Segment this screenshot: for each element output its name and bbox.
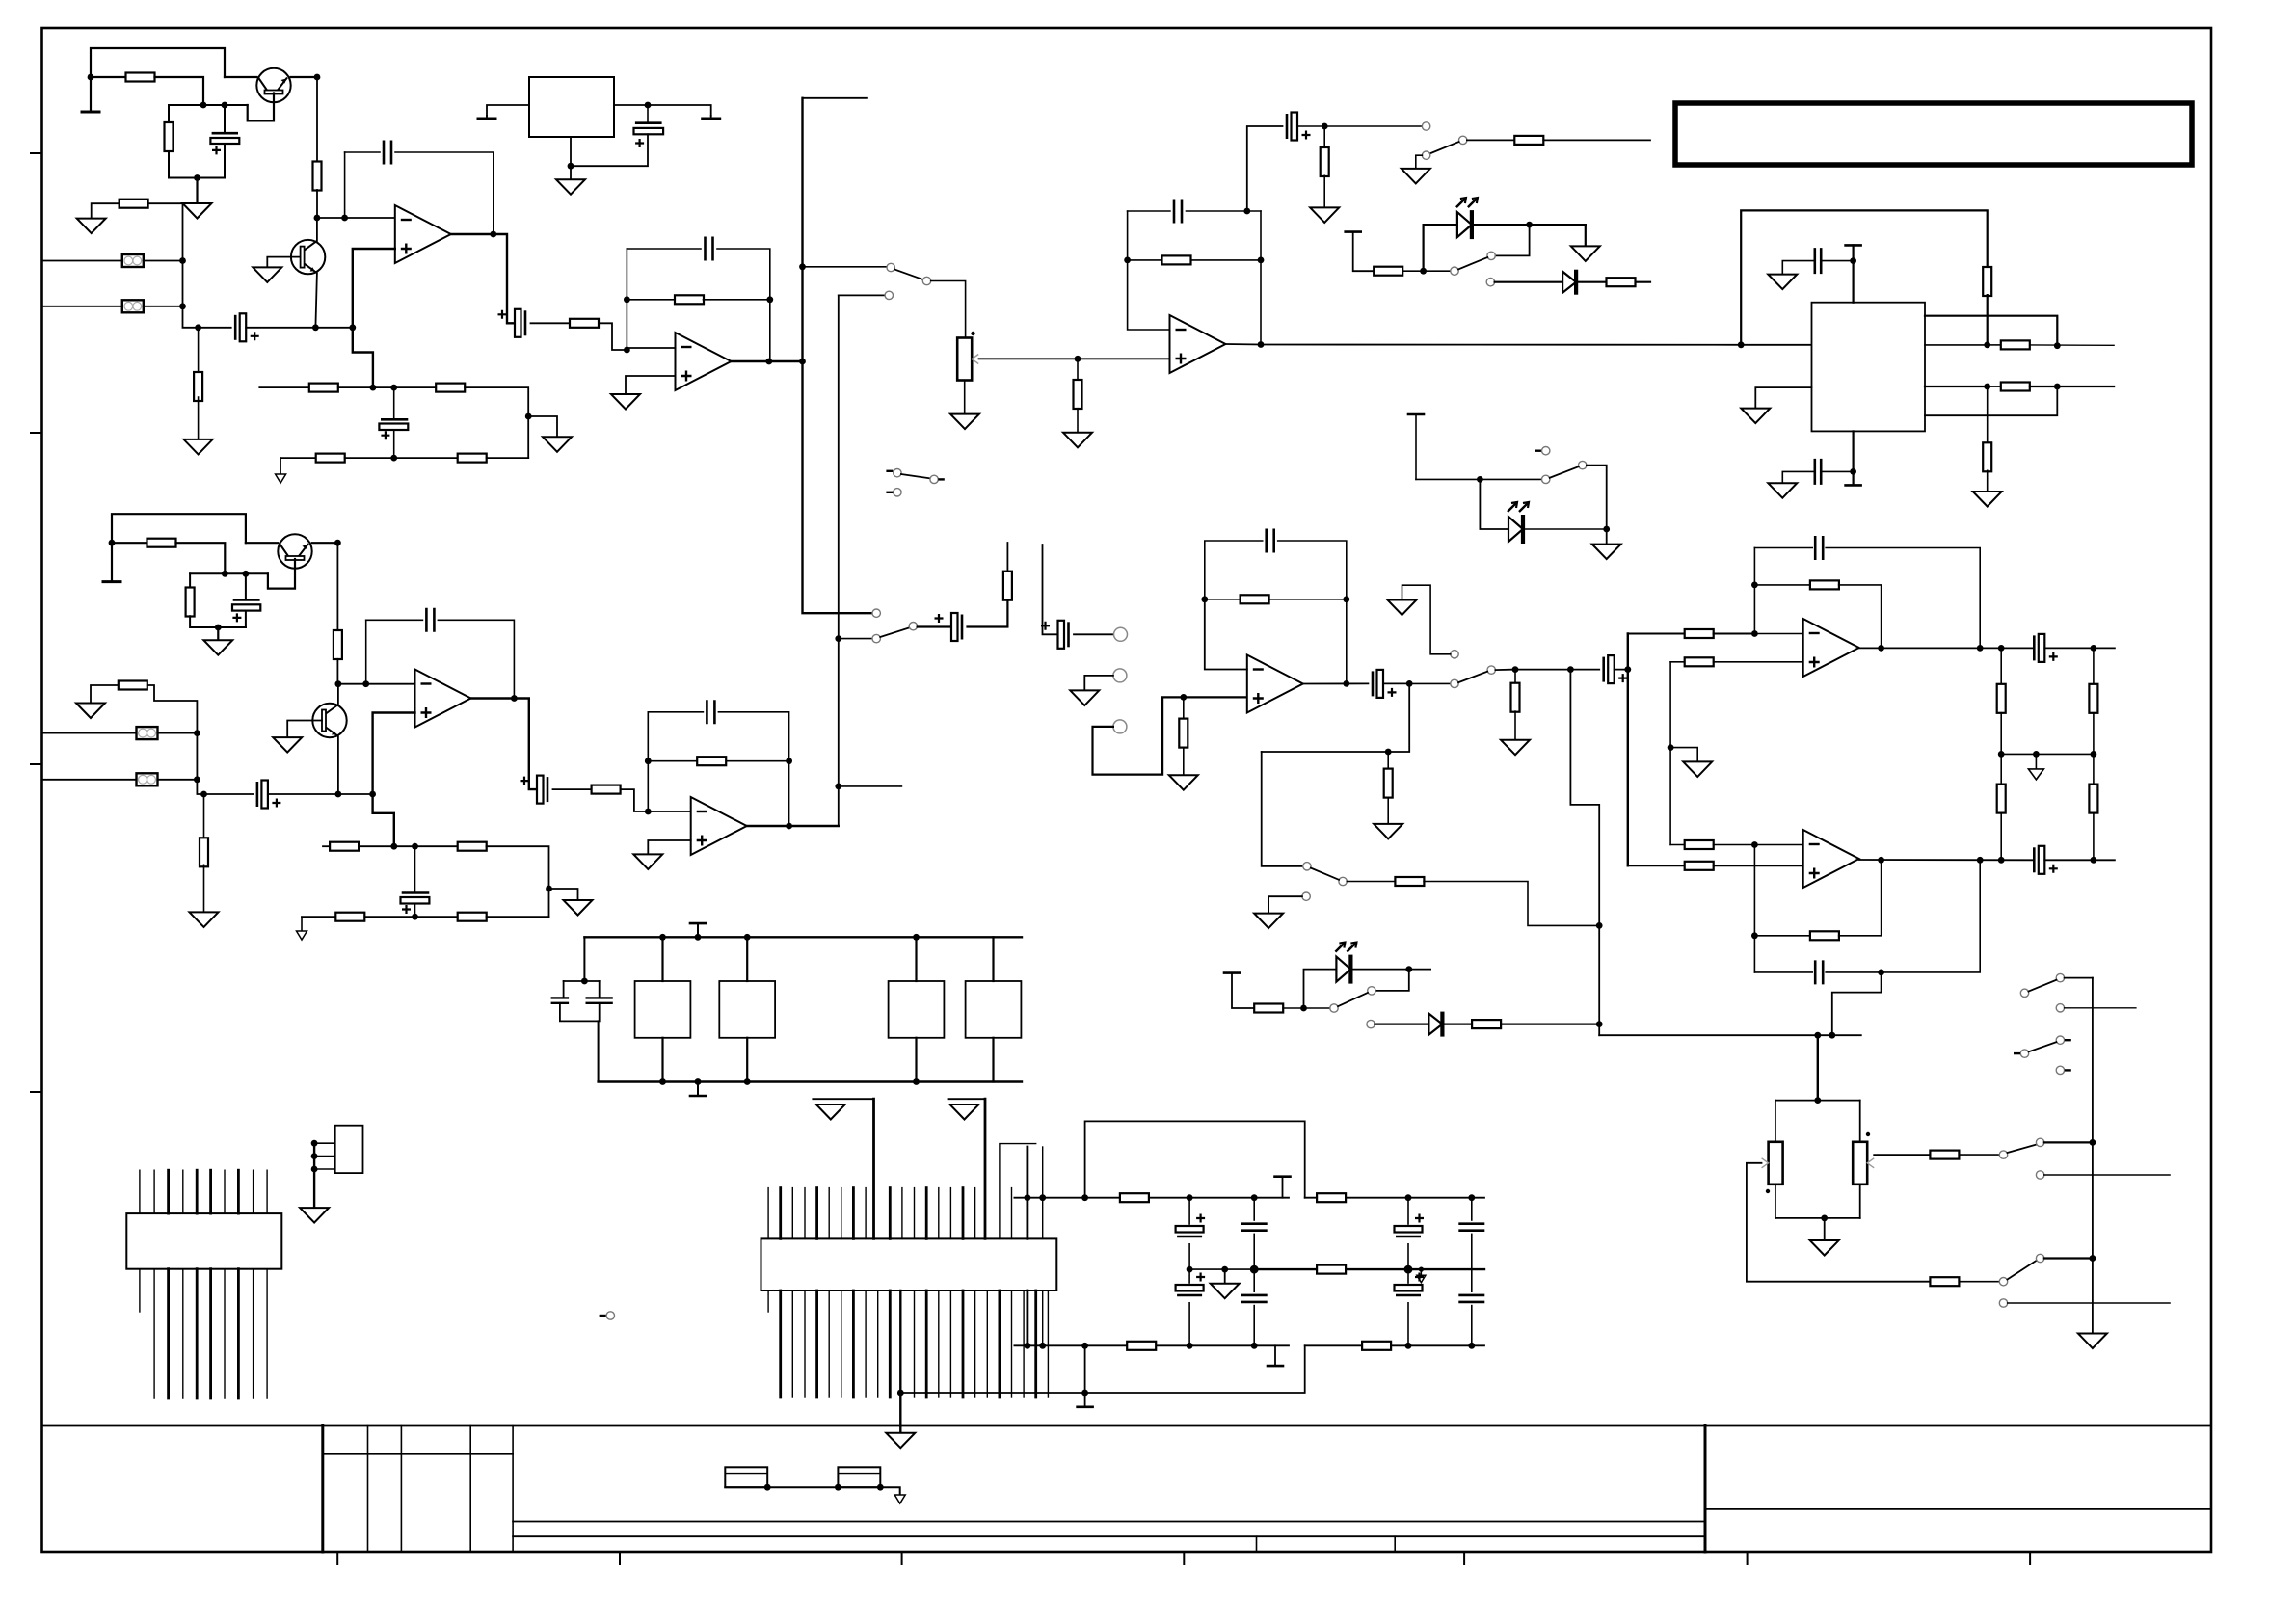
wire D1 to R21	[1577, 281, 1607, 283]
wire P1 gnd1 bar	[813, 1098, 873, 1100]
wire P2 pin bottom 9	[253, 1269, 254, 1398]
wire P1 pin bottom 6	[828, 1290, 830, 1397]
wire R46 right	[1839, 860, 1882, 936]
wire C10 to vee	[1821, 470, 1853, 472]
wire hp in row	[1515, 669, 1599, 671]
wire C12 row to plus rail	[338, 793, 373, 795]
wire U8 row3	[1925, 386, 1988, 387]
wire P1 pin top 6	[828, 1188, 830, 1239]
wire C26 bottom	[1188, 1244, 1190, 1269]
wire LED3 supply	[1232, 973, 1254, 1008]
wire R38 right	[1424, 882, 1599, 926]
wire U9 rail	[313, 1143, 315, 1208]
op-amp U7	[1803, 830, 1859, 888]
wire SW7 diode row	[1495, 281, 1563, 283]
wire P2 pin top 3	[167, 1170, 170, 1213]
power stub rail top	[1275, 1175, 1291, 1178]
wire U1 fb top right	[395, 152, 494, 234]
ground U2 plus	[611, 394, 640, 410]
wire load rail L2	[2000, 713, 2002, 755]
junction mid c	[1404, 1265, 1413, 1274]
wire XLR1 hot	[42, 260, 122, 262]
wire C1 bottom lead	[224, 144, 226, 178]
wire U8 gnd pin	[1852, 431, 1854, 485]
wire R31 to corner	[487, 916, 549, 918]
ground jack J1	[1070, 690, 1099, 705]
title block cell divider A	[1256, 1536, 1258, 1552]
wire jack tip lead	[1074, 633, 1114, 635]
junction K2 bottom	[744, 1078, 751, 1085]
wire U2 fb cap row	[627, 248, 701, 250]
ground SW4	[1254, 914, 1283, 929]
capacitor C5	[381, 418, 408, 421]
wire bridge T stem	[1084, 1393, 1086, 1407]
wire R21 right	[1636, 281, 1650, 283]
wire row878 left	[323, 845, 330, 847]
wire P1 pin bottom 16	[949, 1290, 951, 1397]
wire Q2 base	[267, 257, 300, 268]
wire U1 fb left rail	[344, 152, 346, 218]
wire LED2 gnd	[1606, 529, 1608, 545]
junction U6 out c	[1998, 645, 2005, 652]
diode D2	[1428, 1014, 1442, 1035]
junction bus1 sw1	[799, 263, 806, 270]
switch SW4 blade	[1311, 868, 1339, 880]
earth ground ch2 bias	[103, 580, 120, 583]
wire SW5 pole lead	[1304, 1007, 1330, 1009]
wire VR4 out stem	[710, 116, 712, 119]
wire crystal top row	[564, 980, 600, 982]
wire VR3 wiper	[1874, 1154, 1930, 1156]
wire node to C5	[373, 386, 394, 388]
junction pot rail top	[1814, 1097, 1821, 1104]
junction P1 gnd3	[897, 1390, 904, 1397]
wire mid gnd stem	[1224, 1269, 1226, 1284]
connector P2	[126, 1213, 281, 1269]
junction U6 out b	[1977, 645, 1984, 652]
switch SW9 throw b	[1451, 651, 1458, 658]
ground mid rail	[1211, 1284, 1240, 1299]
resistor R5	[194, 372, 202, 401]
junction U4 fb left	[1201, 596, 1208, 602]
wire R33 stub	[1006, 543, 1008, 572]
wire R4 to rail	[147, 203, 182, 260]
wire load rail L4	[2000, 812, 2002, 860]
ground C10	[1768, 483, 1797, 498]
wire XLR1 cold	[42, 306, 122, 307]
junction input cap node ch2	[200, 791, 207, 798]
capacitor C2	[234, 315, 237, 340]
EMI filter FB4	[137, 773, 158, 785]
resistor R2	[165, 122, 174, 151]
wire Q1 out rail	[316, 77, 318, 162]
wire mid bias rail	[1669, 662, 1671, 845]
wire row878 right	[415, 845, 458, 847]
resistor R37	[1511, 683, 1520, 712]
wire R9 to C5	[345, 457, 394, 459]
junction xlr3	[194, 730, 200, 736]
junction mid b	[1250, 1265, 1259, 1274]
title block divider V4	[469, 1426, 471, 1553]
wire P1 pin top 2	[779, 1188, 782, 1239]
wire U7 fb rail	[1753, 845, 1755, 972]
wire K1 top lead	[661, 937, 663, 981]
wire U4 fb cap left rail	[1205, 541, 1263, 599]
wire P1 pin bottom 23	[1034, 1290, 1037, 1397]
wire VR1 gnd lead	[964, 381, 966, 414]
wire U2b inv lead	[648, 811, 690, 812]
junction rail b6	[1405, 1343, 1412, 1349]
resistor R47	[1997, 684, 2006, 713]
junction plus node	[370, 385, 377, 391]
switch SW8 nc	[1542, 447, 1550, 455]
jack J1 tip	[1114, 627, 1128, 641]
wire input rail	[183, 261, 199, 328]
resistor R14	[1321, 147, 1329, 176]
ground R36	[1374, 824, 1402, 839]
ground ch1 bias	[183, 203, 212, 219]
wire IC in lead	[1741, 344, 1811, 346]
ground R34	[1169, 775, 1198, 790]
resistor R50	[2089, 785, 2097, 813]
capacitor C7	[1174, 200, 1182, 224]
resistor R4	[120, 200, 148, 208]
switch SW10 blade	[2008, 1145, 2037, 1154]
wire C31 bottom	[1407, 1303, 1409, 1346]
wire U8 pin3	[1755, 387, 1811, 409]
wire xtal left top	[563, 981, 565, 998]
junction pot feed	[1814, 1032, 1821, 1039]
junction U5 out	[1258, 341, 1265, 348]
resistor R3	[313, 162, 322, 191]
wire bridge left v	[1084, 1345, 1086, 1393]
op-amp U1	[395, 205, 451, 263]
wire U3 out to C14	[514, 699, 542, 790]
ground C9	[1768, 275, 1797, 290]
capacitor C17	[951, 613, 958, 641]
power stub LED1	[1346, 230, 1361, 233]
junction crystal	[581, 978, 588, 985]
wire R24 to inv row	[336, 659, 338, 684]
junction rail b1	[1025, 1343, 1031, 1349]
junction out R	[2091, 857, 2097, 864]
junction U7 out a	[1878, 857, 1884, 864]
switch SW7 throw a	[1487, 252, 1495, 259]
switch SW1 blade	[894, 270, 923, 280]
resistor R21	[1607, 278, 1636, 286]
wire R7 to node	[338, 386, 373, 388]
switch SW10 nc	[2036, 1171, 2043, 1179]
wire VR4 gnd stem	[570, 166, 572, 179]
resistor R30	[335, 913, 364, 921]
wire sw1 feed	[803, 266, 888, 268]
wire K2 bottom lead	[746, 1038, 748, 1082]
ground U8 pin3	[1741, 409, 1770, 424]
junction row2 b	[2054, 342, 2061, 349]
wire load rail L1	[2000, 648, 2002, 684]
power rail bottom right	[1305, 1344, 1484, 1346]
wire U6 fb cap row	[1754, 547, 1812, 549]
junction pot gnd	[1821, 1215, 1828, 1222]
wire U9 pin y1199	[314, 1156, 335, 1157]
wire P1 vee pin b	[1042, 1290, 1044, 1345]
wire gnd to R25	[91, 685, 119, 704]
arrow stub ch1	[276, 474, 286, 483]
wire C9 gnd	[1782, 261, 1814, 275]
wire pot alt riser	[1832, 972, 1882, 1035]
capacitor C25	[2033, 847, 2036, 872]
capacitor C11	[233, 599, 260, 601]
junction xlr2	[179, 303, 186, 309]
wire R36 gnd	[1387, 798, 1389, 824]
junction rail t3	[1081, 1194, 1088, 1201]
ground pots	[1810, 1240, 1839, 1256]
resistor R24	[334, 630, 342, 659]
wire R14 gnd	[1323, 175, 1325, 207]
resistor R49	[2089, 684, 2097, 713]
power stub clock top	[690, 922, 706, 925]
wire VR1 wiper row	[979, 358, 1170, 359]
junction rail t5	[1251, 1194, 1258, 1201]
wire row951 left	[302, 916, 335, 918]
capacitor C4	[515, 309, 521, 337]
border tick bottom 5	[1463, 1552, 1465, 1564]
wire C9 to vcc	[1821, 260, 1853, 262]
ground U9	[300, 1208, 329, 1223]
transistor Q1	[256, 68, 290, 102]
resistor R56	[1362, 1342, 1391, 1350]
wire VR4 in	[487, 105, 529, 116]
wire K4 top lead	[992, 937, 994, 981]
wire C20 to node	[1383, 682, 1409, 684]
wire U5 output	[1226, 343, 1262, 346]
border tick bottom 6	[1747, 1552, 1749, 1564]
title block divider V2	[367, 1426, 369, 1553]
wire P1 pin top 12	[901, 1188, 903, 1239]
junction row3 a	[1984, 384, 1990, 390]
wire Q4 rail top	[337, 684, 339, 705]
junction load mid b	[2091, 751, 2097, 758]
wire P2 pin top 1	[139, 1170, 141, 1213]
junction ch2 bias	[109, 540, 116, 546]
wire FB1 to rail	[144, 260, 183, 262]
wire C24 right	[1826, 860, 1980, 972]
wire U2 fb R right	[704, 299, 770, 301]
junction U2b fb right	[786, 758, 792, 764]
switch SW8 throw a	[1542, 475, 1550, 483]
wire LED2 T stub	[1415, 414, 1417, 479]
EMI filter FB3	[137, 727, 158, 739]
switch SW14 nc	[606, 1312, 614, 1319]
wire R10 to corner	[487, 457, 529, 459]
wire R1 to node	[155, 77, 204, 105]
ground divider ch1	[543, 437, 572, 452]
wire P1 vcc pin	[1027, 1147, 1029, 1238]
wire P2 pin bottom 8	[237, 1269, 240, 1398]
clock bottom rail	[599, 1080, 1022, 1082]
wire SW10 pole lead	[2044, 1141, 2093, 1143]
wire R2 bottom lead	[169, 151, 225, 178]
resistor R10	[458, 454, 487, 463]
switch SW4 throw a	[1303, 863, 1311, 870]
resistor R20	[1374, 267, 1402, 276]
wire R51 to SW11	[1959, 1281, 1999, 1283]
capacitor C13	[426, 608, 434, 632]
wire node to C15	[394, 845, 415, 847]
wire ch2 bias top	[112, 514, 246, 543]
capacitor C3	[384, 141, 391, 165]
junction LED2 node	[1477, 476, 1483, 483]
wire C10 gnd	[1782, 471, 1814, 483]
resistor R18	[2001, 383, 2030, 391]
border tick bottom 4	[1183, 1552, 1185, 1564]
capacitor C12	[256, 782, 259, 807]
wire load rail R1	[2093, 648, 2095, 684]
wire Q2 rail bottom	[315, 274, 317, 328]
wire P1 pin top 4	[804, 1188, 806, 1239]
junction C15 top	[412, 843, 418, 850]
switch SW13 blade	[2029, 1042, 2057, 1051]
resistor R22	[147, 539, 176, 547]
junction U8 vee	[1850, 468, 1856, 475]
wire R27 to U2b inv	[621, 789, 649, 811]
wire IC fb loop	[1741, 210, 1988, 344]
wire row475 stub	[280, 458, 281, 474]
capacitor C27	[1176, 1285, 1204, 1291]
wire R29 to corner	[487, 846, 549, 917]
wire LED1 riser	[1424, 225, 1457, 271]
switch SW4 pole	[1339, 877, 1347, 885]
junction gnd node ch2	[215, 625, 222, 631]
wire U7 inv lead	[1754, 844, 1802, 846]
title bar rectangle	[1675, 103, 2192, 165]
junction row3 b	[2054, 384, 2061, 390]
switch SW2b nc	[894, 489, 901, 496]
IC U8 delay	[1812, 303, 1926, 432]
wire jack ring gnd	[1084, 676, 1113, 691]
wire P1 gnd2 bar	[948, 1098, 986, 1100]
junction hp amp in	[1624, 666, 1631, 673]
wire P2 pin top 7	[224, 1170, 226, 1213]
wire P1 pin bottom 21	[1011, 1290, 1013, 1397]
junction rail b4	[1187, 1343, 1193, 1349]
junction U4 out	[1343, 680, 1349, 687]
junction U2 fb left	[624, 296, 630, 303]
junction U9 y1186	[311, 1140, 318, 1147]
wire gnd jog	[528, 416, 557, 437]
wire R45 right	[1839, 585, 1882, 649]
wire P2 pin top 4	[182, 1170, 184, 1213]
wire U2b plus gnd	[648, 840, 690, 854]
wire P2 pin top 6	[209, 1170, 212, 1213]
capacitor C33	[1458, 1295, 1484, 1302]
wire P1 pin bottom 22	[1023, 1290, 1025, 1397]
wire load rail R3	[2093, 754, 2095, 785]
wire K2 top lead	[746, 937, 748, 981]
junction fx bias	[1385, 749, 1392, 756]
wire C2 to Q2 rail	[246, 327, 315, 329]
switch SW6 throw a	[1422, 122, 1429, 130]
wire VR2 wiper	[1747, 1163, 1931, 1282]
junction clk b	[695, 1078, 702, 1085]
jumper W1	[725, 1467, 767, 1487]
junction bias mid	[1668, 744, 1674, 751]
switch SW10 pole	[2036, 1138, 2043, 1146]
wire C30 bottom	[1407, 1244, 1409, 1269]
junction VR4 gnd	[568, 163, 574, 170]
resistor R26	[200, 838, 208, 866]
switch SW12 pole	[2020, 989, 2028, 997]
wire SW10 nc row	[2044, 1174, 2170, 1176]
wire C2 row to plus rail	[315, 327, 352, 329]
wire C4 to R6	[531, 322, 571, 324]
resistor R17	[2001, 340, 2030, 349]
junction W2b	[877, 1484, 884, 1491]
EMI filter FB1	[122, 254, 144, 267]
wire rail bottom T stem	[1274, 1345, 1276, 1366]
junction LED3 out	[1405, 966, 1412, 972]
wire C11 top lead	[245, 573, 247, 599]
wire pad node to SW	[1324, 125, 1422, 127]
ground R5	[184, 439, 213, 455]
wire U6 inv lead	[1754, 633, 1802, 635]
switch SW14 dash	[600, 1315, 606, 1317]
junction C8 tap	[1243, 208, 1250, 215]
wire U1 out to C4	[494, 234, 521, 323]
ground VR4	[556, 179, 585, 195]
junction load gnd	[2033, 751, 2040, 758]
wire load rail R4	[2093, 812, 2095, 860]
wire P1 pin bottom 20	[999, 1290, 1001, 1397]
wire node row R2C1	[169, 104, 248, 106]
ground SW6	[1402, 169, 1430, 184]
wire SW6 gnd jog	[1416, 155, 1423, 169]
resistor R51	[1930, 1277, 1959, 1286]
power stub U8 vee	[1846, 484, 1861, 487]
ground R37	[1501, 740, 1530, 756]
wire SW9 out	[1495, 669, 1515, 672]
junction hp in	[1512, 666, 1519, 673]
junction U2b out	[786, 823, 792, 830]
crystal X1 left cap	[551, 998, 570, 1002]
switch SW12 blade	[2029, 980, 2057, 992]
wire SW12 nc1 row	[2065, 1007, 2136, 1009]
wire P2 pin bottom 4	[182, 1269, 184, 1398]
wire R5 top	[198, 328, 200, 376]
switch SW11 pole	[2036, 1254, 2043, 1262]
wire row3 res lead	[1988, 386, 2001, 387]
wire R2 top lead	[168, 105, 170, 122]
module K3	[889, 981, 945, 1038]
ground ch1 input	[77, 219, 106, 234]
capacitor C21	[1602, 657, 1605, 682]
wire bus1 top stub	[803, 97, 867, 99]
crystal X1 right cap	[586, 998, 613, 1002]
wire U8 row1	[1925, 316, 2057, 346]
wire U1 output	[451, 233, 494, 235]
transistor Q2	[291, 240, 325, 274]
wire R30 to C15	[364, 916, 414, 918]
capacitor C16	[707, 700, 714, 724]
switch SW8 pole	[1579, 461, 1587, 468]
wire P1 pin gnd1	[872, 1099, 875, 1238]
wire P1 pin bottom 24	[1047, 1290, 1049, 1397]
wire Q1 collector right	[291, 76, 318, 78]
resistor R13	[1162, 255, 1191, 264]
ground R26	[190, 912, 219, 927]
switch SW9 throw a	[1451, 679, 1458, 687]
resistor R39	[1254, 1004, 1283, 1013]
